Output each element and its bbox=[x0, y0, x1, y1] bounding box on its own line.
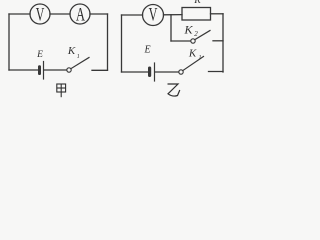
label 甲 (figure A caption, drawn) bbox=[57, 84, 66, 97]
ammeter A1 (left circuit) bbox=[70, 4, 90, 24]
switch K2 arm (open) bbox=[195, 31, 210, 40]
wire: voltmeter to branch node bbox=[164, 14, 183, 16]
node: parallel branch left junction bbox=[170, 15, 172, 41]
switch K1 fixed contact wire bbox=[92, 69, 108, 71]
label 乙 (figure B caption, drawn) bbox=[168, 84, 180, 96]
battery E (right circuit) negative plate bbox=[148, 67, 151, 78]
switch K1 arm (left circuit, open) bbox=[71, 58, 89, 69]
svg-text:K: K bbox=[67, 45, 76, 57]
svg-text:1: 1 bbox=[77, 54, 80, 60]
wire: between voltmeter and ammeter bbox=[50, 13, 70, 15]
battery E (right circuit) positive plate bbox=[154, 63, 156, 81]
wire: ammeter to top-right corner bbox=[90, 13, 108, 15]
svg-text:V: V bbox=[149, 5, 158, 26]
svg-text:K: K bbox=[188, 48, 197, 60]
wire: right loop top, left corner to voltmeter bbox=[122, 14, 143, 16]
svg-text:R: R bbox=[193, 0, 201, 6]
switch K1 arm (right circuit, open) bbox=[183, 57, 204, 71]
wire: left loop left border bbox=[8, 14, 10, 70]
svg-text:V: V bbox=[36, 4, 45, 25]
svg-text:1: 1 bbox=[199, 55, 202, 61]
svg-text:K: K bbox=[183, 23, 193, 37]
svg-text:2: 2 bbox=[194, 30, 198, 38]
svg-text:E: E bbox=[36, 50, 43, 60]
wire: right loop left border bbox=[121, 15, 123, 72]
wire: left loop top, left corner to voltmeter bbox=[9, 13, 30, 15]
switch K1 fixed contact wire (right circuit) bbox=[209, 71, 224, 73]
wire: battery to switch K1 bbox=[156, 71, 179, 73]
wire: battery to switch bbox=[45, 69, 67, 71]
switch K1 pivot (right circuit) bbox=[179, 70, 183, 74]
svg-text:A: A bbox=[76, 4, 85, 25]
switch K2 pivot bbox=[191, 39, 195, 43]
wire: right loop right border bbox=[222, 14, 224, 72]
wire: right loop bottom, corner to battery bbox=[122, 71, 148, 73]
battery E (left circuit) negative plate bbox=[38, 65, 41, 75]
voltmeter V2 (right circuit) bbox=[143, 5, 164, 26]
switch K1 pivot (left circuit) bbox=[67, 68, 71, 72]
wire: left loop bottom, corner to battery bbox=[9, 69, 38, 71]
battery E (left circuit) positive plate bbox=[43, 62, 45, 80]
wire: left loop right border bbox=[107, 14, 109, 70]
resistor R (resistance box, right circuit) bbox=[182, 8, 211, 21]
switch K2 fixed contact wire bbox=[213, 40, 223, 42]
wire: resistor to top-right corner bbox=[211, 13, 224, 15]
svg-text:E: E bbox=[143, 45, 150, 56]
voltmeter V1 (left circuit) bbox=[30, 4, 50, 24]
wire: K2 branch left segment bbox=[171, 40, 191, 42]
